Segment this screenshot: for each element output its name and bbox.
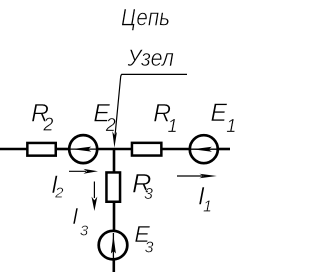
E3 arrow shaft bbox=[112, 233, 114, 258]
svg-text:Узел: Узел bbox=[127, 45, 175, 72]
resistor R3 bbox=[106, 172, 120, 201]
EMF source E2 circle bbox=[69, 135, 97, 163]
svg-text:R3: R3 bbox=[132, 168, 153, 203]
E1 arrow shaft bbox=[191, 148, 217, 150]
resistor R2 bbox=[27, 143, 55, 156]
E1 arrowhead bbox=[192, 147, 212, 152]
E2 arrowhead bbox=[72, 147, 92, 152]
wire E2 to R1 through node bbox=[97, 148, 133, 151]
EMF source E3 circle bbox=[99, 231, 128, 260]
E3 arrowhead bbox=[111, 235, 116, 254]
EMF source E1 circle bbox=[190, 135, 218, 163]
node label underline bbox=[121, 73, 187, 75]
resistor R1 bbox=[132, 143, 161, 156]
node leader line bbox=[115, 74, 122, 140]
wire R2 to E2 bbox=[57, 148, 71, 151]
current I2 arrow shaft bbox=[69, 170, 86, 172]
wire left segment bbox=[0, 148, 27, 151]
current I1 arrowhead bbox=[199, 174, 216, 178]
current I3 arrowhead bbox=[92, 197, 98, 211]
wire R3 to E3 bbox=[113, 202, 116, 232]
E2 arrow shaft bbox=[71, 148, 97, 150]
current I2 arrowhead bbox=[84, 169, 99, 174]
node leader arrowhead bbox=[112, 131, 117, 148]
current I3 arrow shaft bbox=[93, 182, 95, 199]
svg-text:Цепь: Цепь bbox=[121, 4, 170, 31]
current I1 arrow shaft bbox=[177, 175, 203, 177]
wire R1 to E1 bbox=[162, 148, 191, 151]
wire E1 to right end bbox=[217, 148, 230, 151]
wire E3 to bottom bbox=[113, 258, 116, 272]
wire node down to R3 bbox=[113, 149, 116, 172]
